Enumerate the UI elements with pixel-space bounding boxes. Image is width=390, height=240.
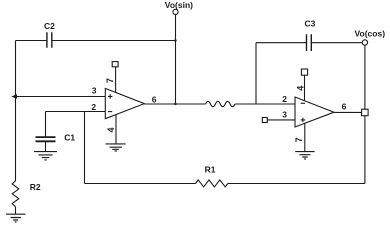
capacitor C1 xyxy=(36,137,56,141)
svg-text:2: 2 xyxy=(91,102,96,112)
svg-text:3: 3 xyxy=(92,86,97,96)
svg-text:R2: R2 xyxy=(30,182,41,192)
node: junction of riser and C2 rail xyxy=(174,39,176,41)
terminal square (U2 pin3) xyxy=(262,118,267,123)
ground (below U2) xyxy=(295,152,314,159)
svg-text:6: 6 xyxy=(152,95,157,105)
svg-text:4: 4 xyxy=(295,86,305,91)
wire: C1 stem from pin2 wire xyxy=(45,112,47,137)
terminal circle Vo(sin) xyxy=(173,9,178,14)
svg-text:C2: C2 xyxy=(44,21,55,31)
svg-text:7: 7 xyxy=(294,137,304,142)
svg-text:R1: R1 xyxy=(205,165,216,175)
svg-text:3: 3 xyxy=(282,110,287,120)
resistor (between stages, unlabeled) xyxy=(206,101,235,106)
svg-text:Vo(cos): Vo(cos) xyxy=(355,29,386,39)
wire: feedback drop to bottom rail xyxy=(84,112,86,184)
wire: bottom rail right of R1 xyxy=(228,183,365,185)
node: Vo(sin) junction on output xyxy=(174,103,176,105)
capacitor C3 xyxy=(307,34,312,51)
wire: C1 to ground xyxy=(45,142,47,152)
svg-text:2: 2 xyxy=(282,94,287,104)
svg-text:C1: C1 xyxy=(64,133,75,143)
wire: right vertical bus xyxy=(364,45,366,183)
wire: left vertical bus xyxy=(15,41,17,182)
wire: U1 pin3 input from left bus xyxy=(16,96,106,98)
wire: U1 pin4 to ground xyxy=(115,114,117,144)
wire: U2 pin3 from input terminal xyxy=(267,119,295,121)
wire: U1 pin2 input xyxy=(46,111,106,113)
U2 plus input mark xyxy=(301,118,305,122)
ground (below C1) xyxy=(34,152,57,160)
terminal square (U2 pin4) xyxy=(301,69,307,75)
ground (below U1) xyxy=(106,144,126,151)
terminal square (U2 output node) xyxy=(362,109,369,116)
U1 minus input mark xyxy=(108,111,112,113)
junction arrow at left bus node xyxy=(11,94,17,99)
svg-text:4: 4 xyxy=(106,127,116,132)
svg-text:6: 6 xyxy=(342,102,347,112)
U1 plus input mark xyxy=(108,94,112,98)
terminal square (U1 pin7) xyxy=(112,62,118,67)
wire: R2 to ground xyxy=(15,207,17,215)
wire: top feedback rail through C2 xyxy=(16,40,176,42)
wire: U1 pin7 to supply terminal xyxy=(115,67,117,93)
wire: U2 pin7 to ground xyxy=(304,123,306,151)
capacitor C2 xyxy=(47,32,52,48)
op-amp U1 xyxy=(105,88,144,118)
resistor R2 xyxy=(12,181,19,207)
resistor R1 xyxy=(196,180,228,187)
wire: U2 pin4 to supply terminal xyxy=(304,75,306,100)
terminal circle Vo(cos) xyxy=(362,40,367,45)
svg-text:C3: C3 xyxy=(305,19,316,29)
wire: C3 branch vertical xyxy=(255,43,257,104)
ground (below R2) xyxy=(6,214,26,222)
wire: U1 output to middle resistor xyxy=(144,103,205,105)
svg-text:7: 7 xyxy=(105,78,115,83)
wire: bottom rail left of R1 xyxy=(85,183,196,185)
wire: U2 output to right bus xyxy=(334,111,365,113)
U2 minus input mark xyxy=(301,102,305,104)
wire: middle resistor to U2 pin2 xyxy=(235,103,295,105)
op-amp U2 xyxy=(295,97,334,127)
wire: top rail through C3 xyxy=(256,42,362,44)
svg-text:Vo(sin): Vo(sin) xyxy=(165,0,193,10)
wire: Vo(sin) vertical riser xyxy=(175,15,177,104)
